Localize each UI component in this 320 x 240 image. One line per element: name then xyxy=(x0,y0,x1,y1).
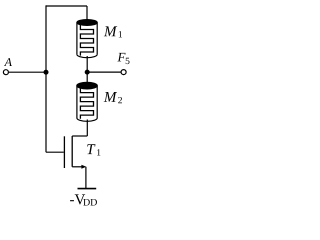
wire left vertical from top rail to gate xyxy=(45,5,47,152)
wire drain lead xyxy=(72,135,87,137)
memristor M2 serpentine element xyxy=(80,88,93,119)
memristor M1 serpentine element xyxy=(80,25,93,56)
junction dot on left vertical (node A net) xyxy=(44,70,49,75)
svg-text:5: 5 xyxy=(125,57,130,67)
junction dot between M1 and M2 (node F5 net) xyxy=(85,70,90,75)
svg-text:A: A xyxy=(4,55,13,69)
svg-text:1: 1 xyxy=(118,30,123,40)
wire A terminal to junction xyxy=(9,71,46,73)
wire gate lead xyxy=(46,151,64,153)
svg-text:1: 1 xyxy=(96,149,101,159)
wire M1 bottom to middle junction xyxy=(86,56,88,72)
svg-text:M: M xyxy=(103,90,118,106)
memristor M1 cylinder body xyxy=(77,23,97,58)
memristor M2 cylinder body xyxy=(77,86,97,122)
power supply bar (-VDD rail) xyxy=(78,188,97,190)
transistor T1 source arrowhead xyxy=(81,165,86,169)
terminal F5 (open circle) xyxy=(121,70,126,75)
wire M1 feed (top rail down into M1) xyxy=(86,6,88,21)
wire M2 bottom to drain jog xyxy=(86,120,88,137)
svg-text:T: T xyxy=(86,142,96,158)
svg-text:M: M xyxy=(103,24,118,40)
transistor T1 channel bar xyxy=(71,136,73,167)
svg-text:DD: DD xyxy=(83,198,97,208)
terminal A (open circle) xyxy=(3,70,8,75)
memristor M1 top electrode (filled ellipse) xyxy=(77,20,97,26)
transistor T1 source lead with arrow xyxy=(72,166,82,168)
transistor T1 gate plate xyxy=(63,136,65,168)
wire top rail from left vertical to M1 xyxy=(46,5,87,7)
wire source drop to supply bar xyxy=(85,167,87,189)
wire middle junction down to M2 xyxy=(86,72,88,83)
memristor M2 top electrode (filled ellipse) xyxy=(77,82,97,88)
wire middle junction to F5 terminal xyxy=(87,71,120,73)
svg-text:2: 2 xyxy=(118,96,123,106)
